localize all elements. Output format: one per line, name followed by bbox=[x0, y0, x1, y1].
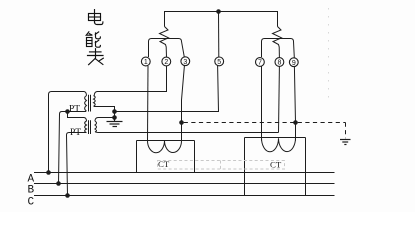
wire: terminal 8 down to PT2 secondary wire bbox=[278, 67, 281, 133]
transformer PT1 secondary winding bbox=[94, 96, 96, 107]
node: junction dot on top bus bbox=[216, 9, 221, 14]
wire: PT1 secondary top hook bbox=[94, 92, 97, 96]
wire: PT2 secondary bottom long lead to terminal 8 bbox=[95, 131, 278, 134]
svg-text:3: 3 bbox=[183, 59, 187, 66]
node: tap dot on bus B bbox=[56, 181, 61, 186]
wire: terminal 3 down to CT1 (with dashed-tap junction) bbox=[182, 66, 185, 141]
dashed CT secondary cable marker between CT boxes bbox=[158, 161, 285, 170]
CT2 secondary winding loops bbox=[261, 138, 295, 152]
wire: PT2 primary top hook bbox=[84, 118, 87, 122]
wire: terminal 2 down and left to PT1 secondary top bbox=[97, 66, 167, 92]
terminal 8 bbox=[275, 58, 284, 67]
node: junction of terminal-3 wire and earth dashed line bbox=[179, 120, 184, 125]
wire: terminal 7 down to CT2 bbox=[261, 67, 263, 141]
busbar phase B bbox=[34, 183, 335, 185]
transformer PT2 primary winding bbox=[85, 121, 87, 133]
node: tap dot on bus C bbox=[65, 193, 70, 198]
transformer PT1 core bbox=[89, 95, 91, 112]
wire: terminal 9 down to CT2 (with dashed-tap junction) bbox=[294, 67, 295, 141]
svg-text:CT: CT bbox=[158, 159, 170, 169]
svg-text:7: 7 bbox=[258, 60, 262, 67]
wire: junction down to grounded secondary common bbox=[114, 112, 116, 118]
transformer PT2 core bbox=[89, 120, 91, 134]
wire: drop from bus to terminal 5 bbox=[218, 12, 220, 58]
node: tap dot on bus A bbox=[46, 170, 51, 175]
busbar phase C bbox=[34, 195, 335, 197]
wire: PT2 secondary top hook bbox=[95, 118, 98, 122]
glyph 能 bbox=[86, 32, 100, 47]
label: meter title 电能表 (drawn strokes) bbox=[86, 10, 103, 65]
voltage coil (zigzag) of right element bbox=[273, 27, 282, 58]
terminal number labels bbox=[144, 59, 296, 67]
svg-text:8: 8 bbox=[277, 60, 281, 67]
terminal 1 bbox=[141, 57, 150, 66]
CT1 box bbox=[137, 141, 195, 173]
terminal 9 bbox=[289, 58, 298, 67]
svg-text:9: 9 bbox=[292, 60, 296, 67]
glyph 表 bbox=[88, 49, 104, 65]
current coil link wire terminal 7 to terminal 9 (right hump) bbox=[262, 39, 295, 58]
node: grounded secondary common dot bbox=[112, 115, 117, 120]
wire: common dot to PT2 secondary top bbox=[98, 117, 115, 119]
wire: PT1 secondary bottom lead to junction bbox=[94, 107, 115, 112]
node: junction of B riser wire and PT2 primary branch bbox=[65, 109, 70, 114]
svg-text:1: 1 bbox=[144, 59, 148, 66]
voltage coil (zigzag) of left element bbox=[160, 27, 169, 58]
CT1 secondary winding loops bbox=[147, 141, 181, 153]
current coil link wire terminal 1 to terminal 3 (left hump) bbox=[149, 39, 185, 58]
terminal 2 bbox=[162, 57, 171, 66]
svg-text:2: 2 bbox=[164, 59, 168, 66]
CT2 box bbox=[245, 138, 306, 196]
glyph 电 bbox=[89, 10, 103, 25]
wire: meter voltage common top bus bbox=[165, 12, 278, 27]
node: junction dot feeding terminal 5 bbox=[112, 109, 117, 114]
svg-text:PT: PT bbox=[70, 128, 81, 138]
svg-text:5: 5 bbox=[217, 59, 221, 66]
terminal 3 bbox=[181, 57, 190, 66]
svg-text:B: B bbox=[28, 185, 35, 197]
terminal 5 bbox=[215, 57, 224, 66]
wire: terminal 5 down, left to PT secondary junction bbox=[115, 66, 219, 112]
ground: right earth symbol bbox=[340, 140, 351, 145]
faint dotted artifact line top right bbox=[328, 8, 330, 100]
wire: phase C riser from bus C to PT2 primary bottom bbox=[67, 133, 87, 196]
ground: PT secondary common earth bbox=[107, 118, 123, 127]
busbar phase A bbox=[34, 172, 335, 174]
wire: phase A riser from bus A to PT1 primary top bbox=[49, 92, 85, 173]
node: junction of terminal-9 wire and earth dashed line bbox=[293, 120, 298, 125]
dashed earth wire from terminal-3 junction to right earth bbox=[184, 123, 346, 139]
svg-text:CT: CT bbox=[270, 159, 282, 169]
svg-text:PT: PT bbox=[69, 105, 80, 115]
wire: phase B riser from bus B to PT1 primary bottom bbox=[59, 112, 87, 184]
transformer PT1 primary winding bbox=[85, 96, 87, 112]
wire: branch from B junction down to PT2 primary top bbox=[68, 112, 85, 118]
terminal 7 bbox=[256, 58, 265, 67]
wire: PT1 primary top hook bbox=[84, 92, 87, 96]
wire: terminal 1 down to CT1 bbox=[147, 66, 150, 140]
svg-text:C: C bbox=[28, 196, 35, 208]
transformer PT2 secondary winding bbox=[95, 121, 97, 132]
